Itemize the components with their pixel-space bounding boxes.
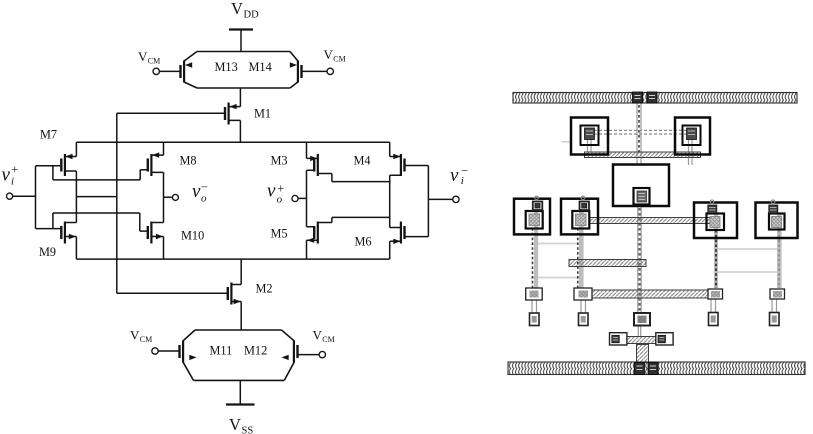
svg-text:V: V	[231, 0, 243, 18]
svg-text:V: V	[138, 49, 148, 64]
svg-text:M13: M13	[215, 60, 238, 74]
svg-text:v: v	[267, 181, 276, 202]
svg-text:M12: M12	[244, 344, 267, 358]
svg-text:o: o	[201, 193, 207, 205]
svg-text:V: V	[313, 328, 323, 343]
svg-text:M9: M9	[39, 245, 56, 259]
svg-text:M11: M11	[210, 344, 233, 358]
svg-text:M14: M14	[249, 60, 272, 74]
svg-text:CM: CM	[148, 57, 160, 66]
svg-text:V: V	[324, 47, 334, 62]
svg-text:SS: SS	[242, 426, 254, 434]
svg-text:v: v	[450, 165, 459, 186]
svg-text:M3: M3	[271, 154, 288, 168]
svg-text:V: V	[229, 415, 241, 434]
svg-text:M6: M6	[355, 235, 372, 249]
svg-text:CM: CM	[322, 335, 334, 344]
svg-text:−: −	[461, 164, 468, 178]
svg-text:M2: M2	[256, 282, 273, 296]
svg-text:v: v	[192, 181, 201, 202]
svg-text:M4: M4	[354, 154, 371, 168]
svg-text:DD: DD	[244, 10, 260, 21]
svg-text:+: +	[277, 182, 284, 196]
svg-text:v: v	[2, 165, 11, 186]
svg-text:M1: M1	[254, 107, 271, 121]
svg-text:CM: CM	[140, 335, 152, 344]
svg-text:i: i	[11, 176, 14, 188]
svg-text:CM: CM	[333, 55, 345, 64]
svg-text:M7: M7	[40, 128, 57, 142]
svg-text:M10: M10	[181, 229, 204, 243]
svg-text:M5: M5	[271, 227, 288, 241]
svg-text:−: −	[201, 180, 208, 194]
svg-text:+: +	[11, 163, 18, 177]
svg-text:V: V	[130, 328, 140, 343]
svg-text:M8: M8	[180, 154, 197, 168]
